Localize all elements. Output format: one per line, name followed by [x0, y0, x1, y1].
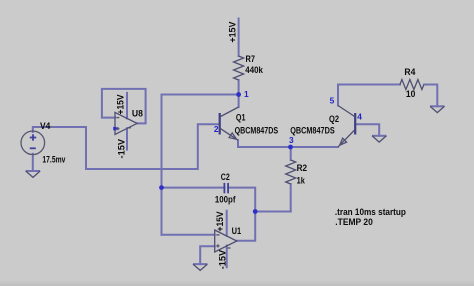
svg-text:R2: R2 [297, 163, 308, 173]
svg-text:C2: C2 [221, 172, 230, 182]
svg-text:V4: V4 [40, 121, 50, 131]
svg-text:1: 1 [244, 89, 249, 99]
svg-text:Q2: Q2 [329, 114, 339, 124]
svg-text:10: 10 [406, 89, 416, 99]
svg-text:R7: R7 [246, 54, 256, 64]
svg-text:+15V: +15V [116, 94, 126, 114]
svg-text:U1: U1 [232, 226, 242, 236]
svg-text:U8: U8 [132, 109, 143, 119]
svg-text:QBCM847DS: QBCM847DS [235, 125, 279, 135]
svg-text:+15V: +15V [227, 21, 237, 42]
svg-text:1k: 1k [297, 176, 305, 186]
svg-text:5: 5 [330, 96, 335, 106]
svg-text:+15V: +15V [215, 211, 225, 231]
svg-text:2: 2 [214, 124, 219, 134]
svg-text:17.5mv: 17.5mv [42, 154, 65, 164]
svg-text:R4: R4 [404, 67, 415, 77]
svg-text:Q1: Q1 [236, 112, 246, 122]
svg-text:QBCM847DS: QBCM847DS [290, 125, 335, 135]
svg-text:-15V: -15V [217, 250, 227, 270]
svg-text:.TEMP 20: .TEMP 20 [335, 217, 373, 227]
svg-text:100pf: 100pf [215, 195, 236, 205]
svg-text:3: 3 [289, 135, 294, 145]
svg-text:440k: 440k [245, 65, 263, 75]
svg-text:4: 4 [357, 111, 362, 121]
svg-text:.tran 10ms startup: .tran 10ms startup [335, 207, 407, 217]
svg-text:-15V: -15V [117, 139, 127, 159]
